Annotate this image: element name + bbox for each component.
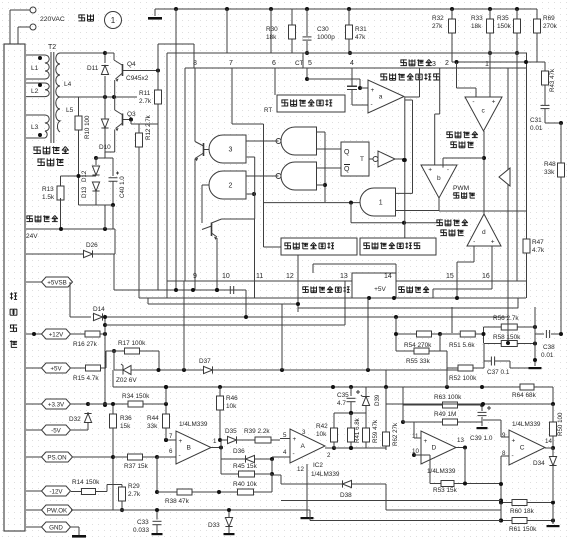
resistor R60 18k: [501, 502, 512, 504]
svg-text:A: A: [301, 443, 306, 450]
wire bus row A right y308: [298, 307, 518, 309]
diode D13: [92, 182, 99, 191]
wire c/d output common: [483, 131, 485, 214]
svg-text:Z02 6V: Z02 6V: [116, 377, 137, 384]
svg-text:13: 13: [457, 437, 464, 444]
capacitor CT internal: [359, 79, 361, 84]
capacitor C37 0.1: [490, 357, 492, 366]
wire +12V to R16: [71, 333, 80, 335]
svg-text:R60 18k: R60 18k: [510, 508, 535, 515]
transistor Q3: [115, 110, 122, 115]
wire C inputs: [501, 436, 509, 438]
svg-text:2: 2: [445, 60, 449, 67]
svg-text:+5V: +5V: [374, 286, 386, 293]
IC box outer: [167, 52, 527, 54]
svg-text:+: +: [491, 239, 495, 246]
resistor R16 27k: [80, 333, 85, 335]
svg-text:R31: R31: [355, 26, 367, 33]
resistor R43 47k: [544, 62, 546, 66]
small output buffer symbol: [499, 168, 510, 186]
resistor R45 15k: [220, 459, 222, 474]
wire a output: [404, 97, 406, 124]
svg-text:L1: L1: [31, 65, 39, 72]
svg-text:R47: R47: [532, 239, 544, 246]
diode D14: [94, 313, 103, 320]
svg-text:CT: CT: [295, 60, 304, 67]
svg-text:R37 15k: R37 15k: [124, 463, 149, 470]
resistor R32 27k: [451, 9, 453, 16]
comparator D 1/4LM339: [421, 431, 456, 464]
resistor R35 150k: [516, 9, 518, 16]
resistor R63 100k: [403, 404, 430, 406]
svg-text:11: 11: [256, 273, 263, 280]
svg-text:150k: 150k: [497, 23, 512, 30]
wire aux 24V rail: [26, 228, 115, 230]
svg-text:15k: 15k: [120, 423, 131, 430]
svg-text:4: 4: [350, 60, 354, 67]
capacitor C31 0.01: [541, 104, 550, 106]
label auxiliary supply 24V: [26, 215, 32, 221]
nand gate upper: [281, 127, 317, 155]
svg-text:18k: 18k: [266, 34, 277, 41]
wire Qbar to nand2: [317, 167, 342, 169]
svg-text:L3: L3: [31, 124, 39, 131]
resistor R29 2.7k: [107, 484, 122, 486]
wire A output: [325, 447, 334, 449]
wire pin12 column: [297, 281, 299, 308]
svg-text:D38: D38: [340, 492, 352, 499]
svg-text:+: +: [512, 438, 516, 445]
ground C37: [510, 367, 530, 369]
nand gate lower: [281, 162, 317, 190]
diode D33: [228, 510, 230, 517]
svg-text:a: a: [379, 94, 383, 101]
resistor R15 4.7k: [80, 367, 86, 369]
wire B inputs: [166, 439, 176, 441]
wire D inputs: [414, 437, 421, 439]
resistor R53 15k: [430, 483, 441, 485]
+5V box on pin 14: [352, 273, 396, 298]
label feedback input: [400, 59, 406, 65]
flag -5V: [26, 429, 42, 431]
wire +12V riser: [104, 334, 106, 405]
svg-text:Q4: Q4: [127, 61, 136, 68]
svg-text:1/4LM339: 1/4LM339: [311, 471, 340, 478]
svg-text:R69: R69: [543, 15, 555, 22]
svg-text:3: 3: [302, 429, 306, 436]
resistor R64 68k: [482, 386, 513, 388]
flag +5V: [26, 367, 42, 369]
transformer T2 core: [50, 52, 52, 143]
svg-text:R45 15k: R45 15k: [233, 463, 258, 470]
capacitor C39 1.0: [481, 405, 483, 411]
wire +5V box column: [367, 298, 369, 370]
svg-text:-12V: -12V: [49, 488, 63, 495]
wire riser C38 col: [534, 307, 536, 324]
svg-text:R29: R29: [128, 483, 140, 490]
svg-text:R15 4.7k: R15 4.7k: [73, 375, 99, 382]
svg-text:1000p: 1000p: [317, 34, 335, 41]
resistor R59 47k: [365, 413, 367, 426]
resistor R38 47k: [157, 491, 170, 493]
svg-text:1/4LM339: 1/4LM339: [179, 421, 208, 428]
resistor R56 2.7k: [484, 326, 502, 328]
svg-text:D13: D13: [81, 186, 88, 198]
svg-text:4.7: 4.7: [337, 400, 346, 407]
wire bus row D y325: [105, 324, 345, 326]
svg-text:PWM: PWM: [453, 185, 469, 192]
wire bus vertical x167: [166, 53, 168, 298]
svg-text:C31: C31: [530, 117, 542, 124]
resistor R36 15k: [112, 404, 114, 414]
resistor R39 2.2k: [246, 439, 255, 441]
svg-text:0.01: 0.01: [530, 125, 543, 132]
transformer winding L4: [56, 53, 60, 97]
capacitor C30 1000p: [306, 9, 308, 36]
resistor R44 33k: [165, 404, 167, 414]
svg-text:C37 0.1: C37 0.1: [487, 369, 510, 376]
svg-text:-: -: [473, 239, 475, 246]
svg-text:R43 47k: R43 47k: [549, 68, 556, 92]
svg-text:Q: Q: [344, 149, 350, 156]
svg-text:IC2: IC2: [313, 462, 323, 469]
wire to D38: [272, 474, 281, 476]
svg-text:+3.3V: +3.3V: [48, 401, 65, 408]
svg-text:14: 14: [384, 273, 392, 280]
svg-text:C945x2: C945x2: [126, 75, 149, 82]
wire D14 branch: [69, 282, 71, 317]
svg-text:R48: R48: [544, 161, 556, 168]
svg-text:R10 100: R10 100: [84, 115, 91, 139]
svg-text:+: +: [371, 87, 375, 94]
svg-text:1: 1: [379, 200, 383, 207]
svg-text:R49 1M: R49 1M: [434, 411, 456, 418]
svg-text:0.033: 0.033: [133, 527, 149, 534]
wire gate3/gate2 input column: [247, 156, 255, 158]
flag -12V: [26, 490, 42, 492]
resistor R69 270k: [536, 9, 538, 16]
svg-text:+12V: +12V: [49, 331, 64, 338]
flag +12V: [26, 333, 42, 335]
wire pin4 dead-time: [351, 68, 353, 86]
svg-text:5: 5: [308, 60, 312, 67]
wire pin1 to c+: [489, 36, 491, 97]
wire bus vertical x176: [175, 9, 177, 290]
svg-text:R13: R13: [42, 186, 54, 193]
wire A output row: [334, 447, 386, 449]
svg-text:1/4LM339: 1/4LM339: [512, 421, 541, 428]
svg-text:D34: D34: [533, 460, 545, 467]
terminal 220VAC top: [30, 7, 36, 13]
wire top rail: [155, 8, 537, 10]
output transistor Q1 internal: [203, 143, 205, 156]
wire sense row y387: [113, 386, 520, 388]
wire pin6 to oscillator: [270, 9, 272, 53]
wire riser R51: [451, 307, 453, 333]
svg-text:D33: D33: [208, 522, 220, 529]
svg-text:27k: 27k: [432, 23, 443, 30]
svg-text:T2: T2: [48, 44, 56, 51]
svg-text:2: 2: [327, 452, 331, 459]
wire +3.3V node: [71, 403, 105, 405]
svg-text:D37: D37: [199, 358, 211, 365]
svg-text:R56 2.7k: R56 2.7k: [493, 315, 519, 322]
wire +5V to R15: [71, 367, 80, 369]
svg-text:R44: R44: [147, 415, 159, 422]
svg-text:C30: C30: [317, 26, 329, 33]
transistor Q4: [105, 52, 107, 54]
svg-text:C39 1.0: C39 1.0: [470, 435, 493, 442]
svg-text:R33: R33: [471, 15, 483, 22]
svg-text:1: 1: [111, 16, 116, 25]
low voltage stop box: [360, 238, 436, 255]
svg-text:-: -: [293, 451, 295, 458]
wire a/pin7 vertical: [404, 124, 406, 238]
svg-text:T: T: [360, 156, 364, 163]
wire bottom long rows: [500, 484, 502, 521]
svg-text:270k: 270k: [543, 23, 558, 30]
resistor R40 10k: [219, 491, 238, 493]
wire node y97: [79, 96, 138, 98]
svg-text:13: 13: [340, 273, 348, 280]
wire C output: [545, 447, 553, 449]
svg-text:+: +: [424, 438, 428, 445]
diode D12: [95, 158, 97, 165]
wire pin3 feedback riser: [507, 68, 509, 281]
wire sense drop x386: [385, 370, 387, 387]
svg-text:6: 6: [272, 60, 276, 67]
svg-text:R63 100k: R63 100k: [434, 394, 462, 401]
svg-text:10k: 10k: [226, 403, 237, 410]
svg-text:10k: 10k: [316, 431, 327, 438]
svg-text:D26: D26: [86, 242, 98, 249]
resistor R13 1.5k: [60, 176, 62, 188]
svg-text:7: 7: [229, 60, 233, 67]
svg-text:14: 14: [545, 438, 552, 445]
ground for GND flag: [71, 526, 79, 528]
wire L4 top to rail: [60, 52, 106, 54]
wire +5V box bottom rail: [344, 297, 526, 299]
resistor R58 150k: [484, 343, 502, 345]
resistor R47 4.7k: [526, 211, 528, 236]
wire b output: [438, 198, 440, 211]
svg-text:D35: D35: [225, 428, 237, 435]
wire IC edge to sense row: [183, 281, 185, 370]
output transistor Q2 internal: [201, 185, 203, 223]
svg-text:C40 1.0: C40 1.0: [119, 176, 126, 198]
resistor R50 100: [552, 404, 554, 418]
wire bus row A left y304: [148, 303, 298, 305]
svg-text:C33: C33: [137, 519, 149, 526]
svg-text:R40 10k: R40 10k: [233, 481, 258, 488]
diode D10: [101, 119, 108, 128]
resistor R54 270k: [396, 333, 408, 335]
svg-text:-5V: -5V: [51, 427, 62, 434]
wire C35 row: [334, 412, 366, 414]
resistor R62 27k: [385, 387, 387, 430]
svg-text:R11: R11: [139, 90, 151, 97]
svg-text:B: B: [187, 445, 192, 452]
svg-text:D36: D36: [233, 448, 245, 455]
resistor R41 6.8k: [350, 413, 352, 426]
svg-text:12: 12: [286, 273, 294, 280]
svg-text:-: -: [371, 101, 373, 108]
svg-text:R39 2.2k: R39 2.2k: [244, 428, 270, 435]
flag +5VSB: [26, 281, 42, 283]
svg-text:R35: R35: [497, 15, 509, 22]
resistor R11 2.7k: [156, 69, 160, 73]
zener Z02 6V: [114, 369, 123, 371]
wire PS.ON row: [72, 456, 113, 458]
wire feedback net: [507, 281, 509, 343]
resistor R12 2.7k: [129, 118, 133, 122]
gate 2 and: [209, 171, 246, 199]
capacitor C40 1.0: [96, 157, 113, 159]
svg-text:+5V: +5V: [50, 365, 62, 372]
wire C output down: [552, 470, 554, 500]
svg-text:12: 12: [297, 466, 304, 473]
resistor R48 33k: [560, 155, 562, 163]
svg-text:11: 11: [412, 433, 419, 440]
block rectifier-inverter box: [4, 44, 25, 531]
svg-text:10: 10: [222, 273, 230, 280]
diode D36: [221, 458, 245, 460]
wire B output node: [211, 447, 221, 449]
svg-text:D: D: [432, 445, 437, 452]
svg-text:RT: RT: [264, 107, 272, 114]
diode D35: [221, 439, 227, 441]
wire notch over +5V box: [313, 263, 396, 265]
svg-text:1/4LM339: 1/4LM339: [427, 468, 456, 475]
svg-text:R32: R32: [432, 15, 444, 22]
diode D38: [281, 483, 343, 485]
svg-text:+: +: [179, 438, 183, 445]
svg-text:R50 100: R50 100: [557, 412, 564, 436]
resistor R10 100: [78, 97, 80, 116]
wire ref box to pin 12: [297, 255, 299, 281]
resistor R14 150k: [71, 491, 80, 493]
svg-text:-: -: [512, 452, 514, 459]
svg-text:R61 150k: R61 150k: [509, 526, 537, 533]
svg-text:D11: D11: [87, 65, 99, 72]
svg-text:R38 47k: R38 47k: [165, 498, 190, 505]
svg-text:47k: 47k: [355, 34, 366, 41]
wire pin9 ground row: [114, 289, 246, 291]
svg-text:PS.ON: PS.ON: [47, 454, 66, 461]
svg-text:16: 16: [482, 273, 490, 280]
wire L4-L5 junction to R10: [60, 96, 79, 98]
svg-text:D14: D14: [93, 306, 105, 313]
svg-text:R51 5.6k: R51 5.6k: [449, 342, 475, 349]
wire row y298 left: [139, 297, 344, 299]
diode D34: [552, 448, 554, 456]
svg-text:+: +: [492, 99, 496, 106]
svg-text:15: 15: [446, 273, 454, 280]
wire right margin vertical: [560, 123, 562, 334]
svg-text:R59 47k: R59 47k: [372, 419, 379, 443]
resistor R34 150k: [105, 403, 128, 405]
svg-text:-: -: [472, 99, 474, 106]
svg-text:2.7k: 2.7k: [139, 98, 152, 105]
resistor R17 100k: [112, 349, 116, 353]
wire pin13 column: [344, 281, 346, 325]
resistor R51 5.6k: [452, 333, 460, 335]
gate 3 and: [209, 135, 246, 163]
sawtooth oscillator box: [277, 95, 345, 112]
svg-text:33k: 33k: [544, 169, 555, 176]
ground top rail: [154, 9, 156, 16]
wire gate1 output row: [264, 202, 361, 204]
wire pin2 node: [452, 61, 545, 63]
flip-flop box: [341, 142, 369, 176]
capacitor C35 4.7: [350, 387, 352, 396]
zener D39: [365, 387, 367, 396]
svg-text:7: 7: [169, 433, 173, 440]
flag GND: [26, 526, 42, 528]
comparator a dead-time: [360, 87, 368, 89]
svg-text:L5: L5: [66, 107, 74, 114]
diode D26: [26, 253, 83, 255]
wire bottom of diode chain: [79, 204, 114, 206]
diode D32: [71, 429, 88, 431]
capacitor C38 0.01: [535, 333, 544, 335]
svg-text:R17 100k: R17 100k: [118, 340, 146, 347]
svg-text:d: d: [482, 229, 486, 236]
svg-text:+: +: [293, 436, 297, 443]
svg-text:L2: L2: [31, 88, 39, 95]
wire gate1 inputs: [396, 192, 413, 194]
wire d inputs to pins 15 16: [473, 246, 475, 262]
svg-text:R12 2.7k: R12 2.7k: [145, 114, 152, 140]
label pulse drive transformer: [33, 146, 40, 153]
svg-text:Q: Q: [344, 166, 350, 173]
svg-text:C35: C35: [337, 392, 349, 399]
diode D11: [104, 53, 106, 63]
wire y387 to R63 R64 row: [402, 387, 404, 422]
svg-text:4.7k: 4.7k: [532, 247, 545, 254]
svg-text:3: 3: [229, 147, 233, 154]
terminal 220VAC bottom: [30, 24, 36, 30]
wire R13 top to diode midpoint: [61, 175, 97, 177]
wire bus vertical x158: [157, 44, 159, 71]
wire pin5 CT node: [306, 68, 308, 79]
svg-text:R46: R46: [226, 395, 238, 402]
label reference output: [398, 286, 404, 292]
svg-text:GND: GND: [49, 524, 63, 531]
svg-text:R36: R36: [120, 415, 132, 422]
ground comparator A: [306, 464, 308, 517]
resistor R37 15k: [113, 456, 128, 458]
wire pin3 feedback to PWM comparator: [439, 68, 441, 114]
resistor R46 10k: [219, 387, 221, 394]
inverter after flip-flop: [369, 158, 373, 160]
svg-text:C: C: [520, 445, 525, 452]
svg-text:R30: R30: [266, 26, 278, 33]
svg-text:R14 150k: R14 150k: [72, 479, 100, 486]
resistor R33 18k: [489, 9, 491, 16]
wire Q to nand1: [317, 148, 342, 150]
svg-text:24V: 24V: [26, 233, 38, 240]
transformer winding L5: [56, 97, 60, 132]
svg-text:-: -: [447, 167, 449, 174]
flag PW.OK: [26, 509, 42, 511]
gate 1 and: [360, 188, 396, 216]
svg-text:L4: L4: [64, 81, 72, 88]
wire pin4 drop to a output: [419, 68, 421, 97]
flag +3.3V: [26, 403, 42, 405]
wire R12 column to bus: [138, 152, 140, 298]
svg-text:3: 3: [432, 61, 436, 68]
